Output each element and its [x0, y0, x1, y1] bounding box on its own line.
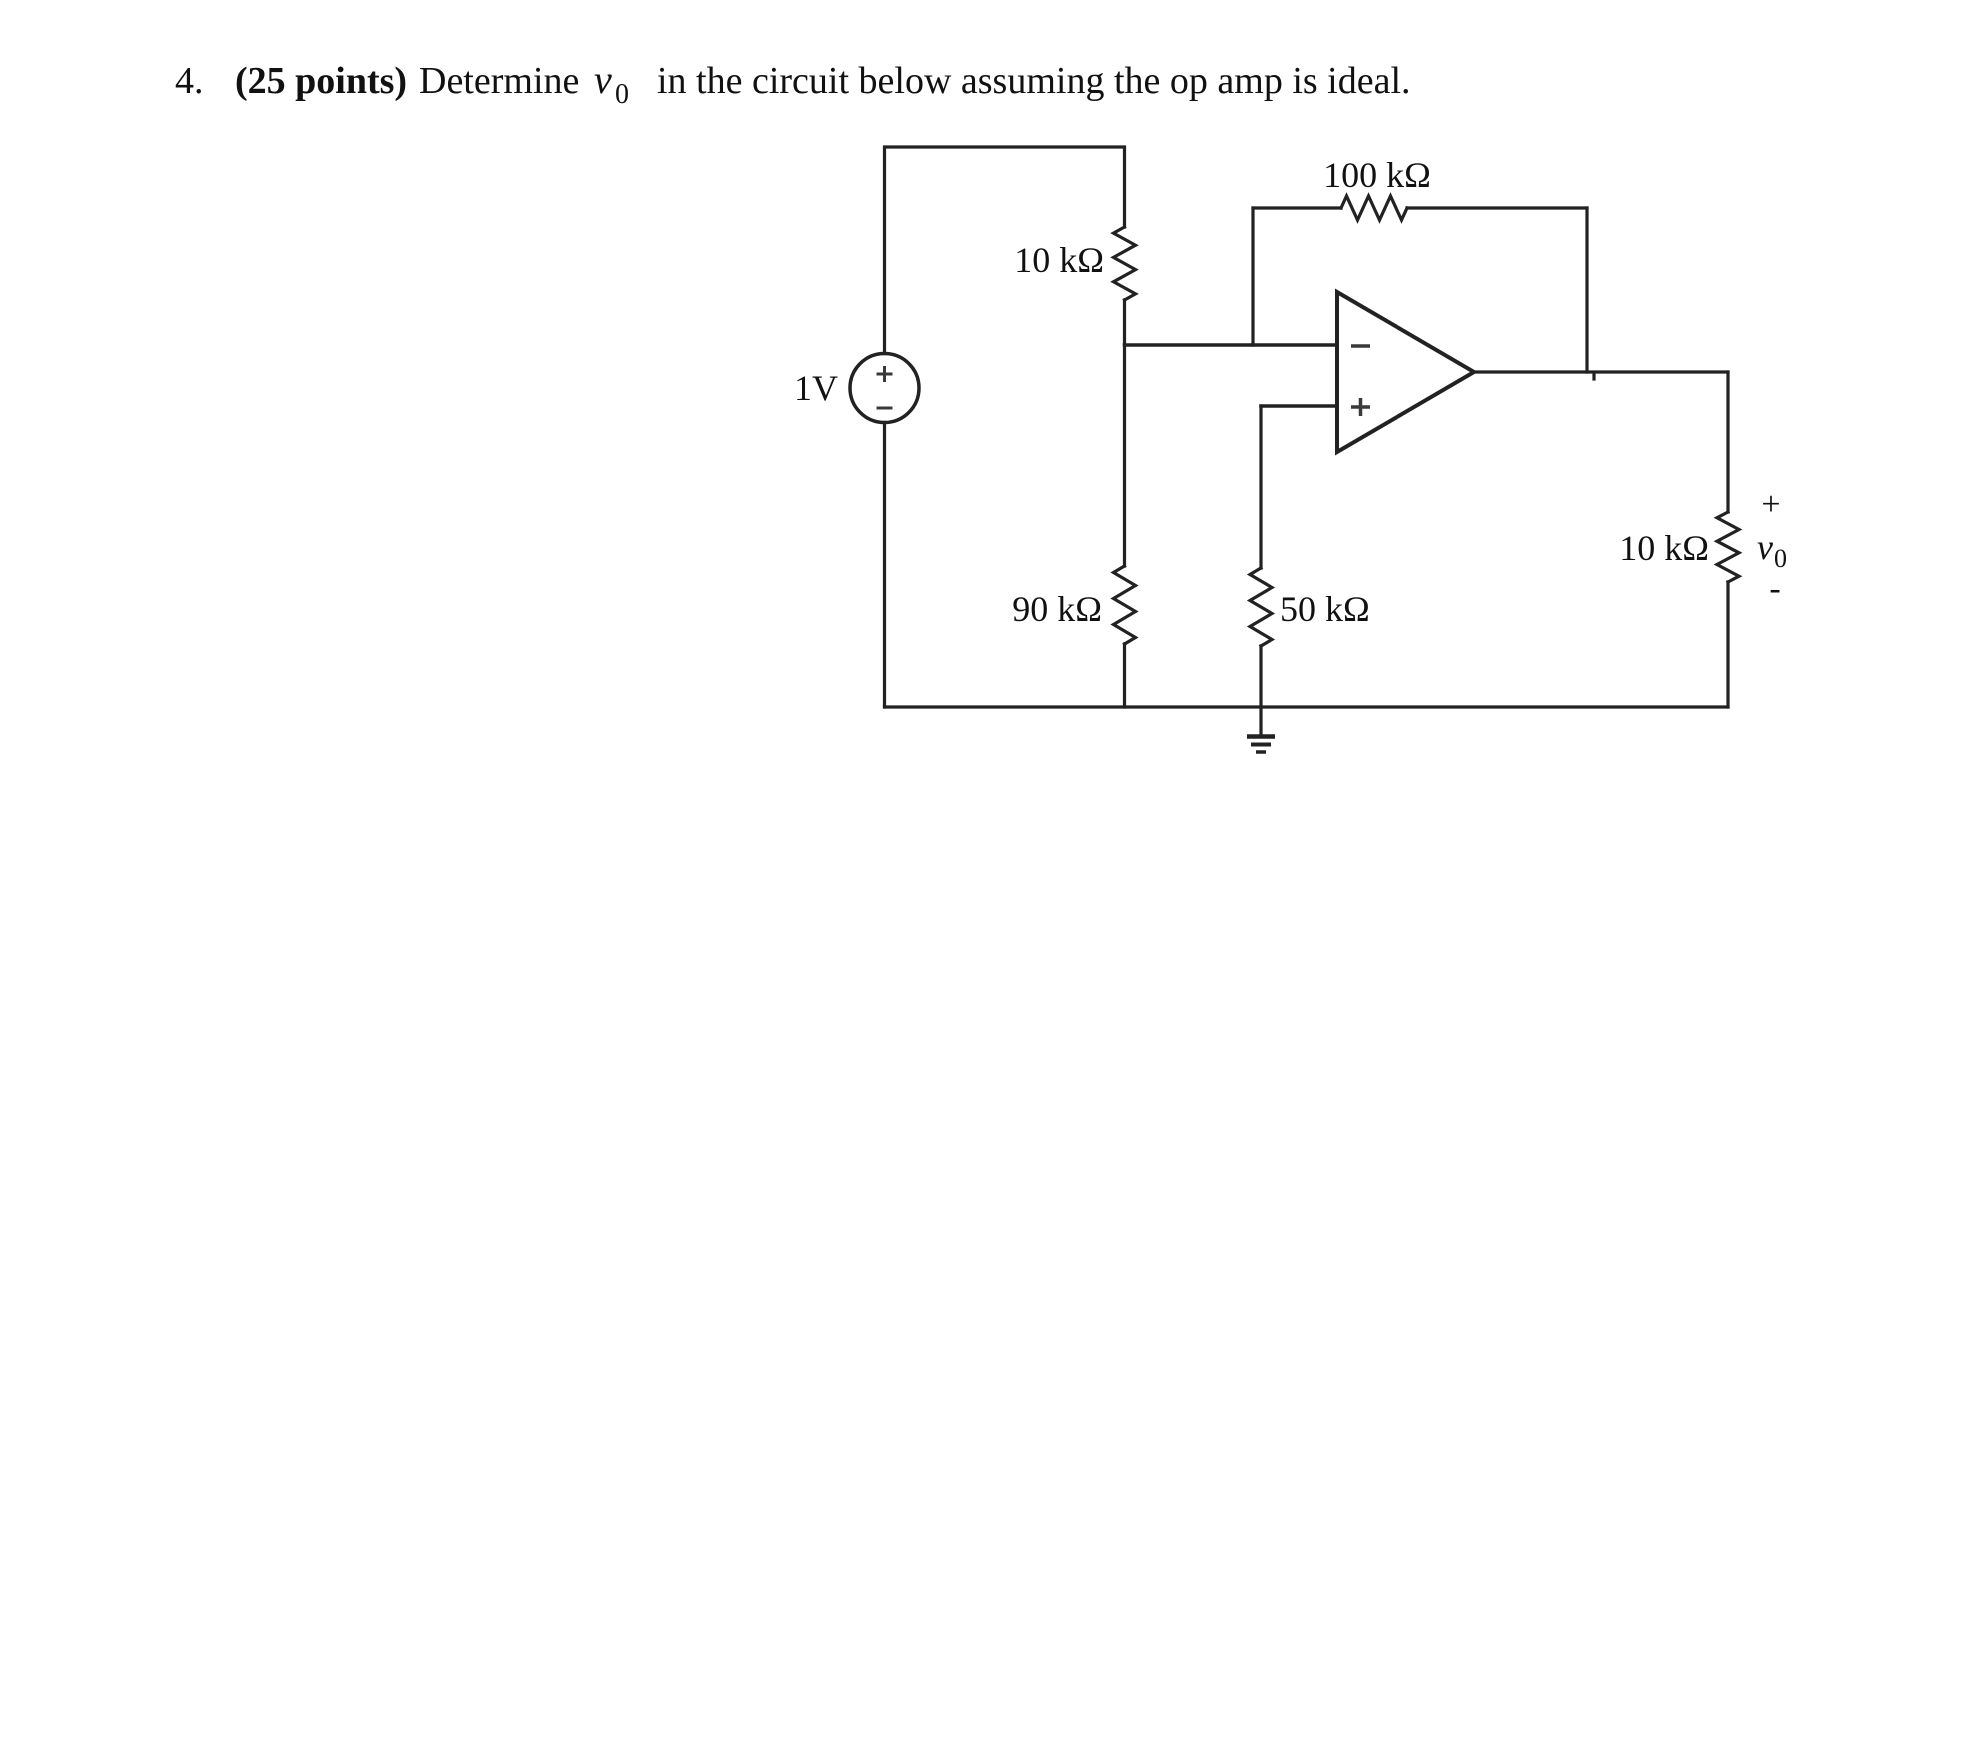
op-amp non-inverting pin mark	[1351, 398, 1370, 416]
resistor R1 10 kOhm (top left branch)	[1114, 227, 1136, 300]
wire: left vertical below source to bottom rail	[883, 423, 886, 708]
wire: inverting input from node A to op-amp	[1125, 343, 1338, 347]
svg-text:1V: 1V	[794, 368, 838, 408]
svg-text:Determine: Determine	[419, 60, 579, 102]
wire: right vertical from output down to load	[1726, 372, 1729, 512]
resistor R3 100 kOhm (feedback)	[1341, 196, 1407, 220]
node: junction nub right of feedback join	[1592, 373, 1595, 379]
voltage source V1 1V	[850, 354, 919, 423]
wire: 100k right lead	[1407, 206, 1587, 209]
wire: top loop from source top to 10k branch	[885, 147, 1125, 354]
svg-text:-: -	[1769, 570, 1780, 607]
wire: non-inverting vertical down to 50k	[1259, 406, 1262, 568]
wire: non-inverting input lead	[1261, 404, 1337, 408]
resistor R4 50 kOhm	[1250, 568, 1272, 646]
svg-text:0: 0	[615, 79, 629, 110]
wire: 10k bottom through inverting node down to 90k top	[1123, 300, 1126, 566]
wire: feedback left vertical drop to inverting input	[1251, 208, 1254, 345]
svg-text:in the circuit below assuming: in the circuit below assuming the op amp…	[657, 60, 1411, 102]
svg-text:+: +	[1761, 486, 1780, 523]
resistor R2 90 kOhm	[1114, 566, 1136, 644]
title line	[175, 57, 1411, 110]
op-amp U1	[1337, 292, 1474, 452]
svg-text:90 kΩ: 90 kΩ	[1012, 589, 1102, 629]
op-amp inverting pin mark	[1351, 344, 1370, 348]
svg-text:v: v	[1757, 527, 1773, 567]
svg-text:50 kΩ: 50 kΩ	[1280, 589, 1370, 629]
voltage source minus mark	[877, 407, 893, 410]
svg-text:4.: 4.	[175, 60, 204, 102]
wire: load bottom to bottom rail	[1726, 582, 1729, 707]
resistor R5 10 kOhm (load)	[1717, 512, 1739, 582]
wire: bottom rail	[885, 705, 1729, 708]
voltage source plus mark	[877, 366, 893, 382]
svg-text:100 kΩ: 100 kΩ	[1323, 155, 1431, 195]
wire: 90k bottom to bottom rail	[1123, 644, 1126, 707]
svg-text:v: v	[594, 57, 612, 102]
wire: op-amp output	[1474, 370, 1728, 373]
wire: 50k bottom through bottom rail to ground stem	[1259, 646, 1262, 735]
ground	[1247, 734, 1275, 739]
svg-text:(25 points): (25 points)	[235, 60, 407, 102]
svg-text:10 kΩ: 10 kΩ	[1014, 240, 1104, 280]
svg-text:0: 0	[1774, 544, 1787, 573]
svg-text:10 kΩ: 10 kΩ	[1619, 528, 1709, 568]
wire: feedback right vertical to output	[1585, 208, 1588, 372]
wire: 100k left lead	[1253, 206, 1341, 209]
